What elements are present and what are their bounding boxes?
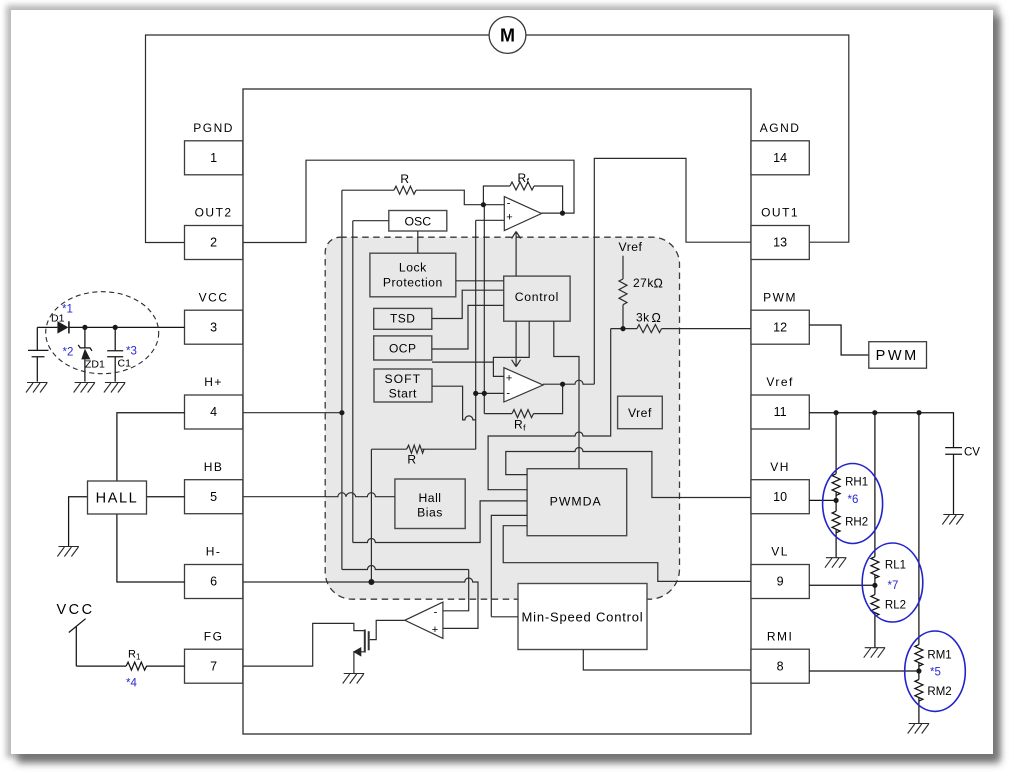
ground MOSFET — [343, 674, 365, 684]
block OCP — [374, 336, 432, 360]
wire comparator output to MOSFET gate — [370, 620, 405, 639]
wire op-amp1 plus input — [476, 219, 504, 221]
svg-text:*6: *6 — [848, 494, 859, 506]
svg-text:PWMDA: PWMDA — [550, 495, 602, 509]
svg-text:Control: Control — [515, 290, 559, 304]
svg-text:Ω: Ω — [654, 277, 664, 291]
zener ZD1 leads — [84, 327, 86, 381]
resistor RM2 — [915, 680, 923, 702]
node VCC/ZD1 — [82, 325, 87, 330]
node VL — [872, 583, 877, 588]
svg-text:Vref: Vref — [619, 240, 643, 254]
svg-text:-: - — [434, 607, 438, 619]
svg-text:RL2: RL2 — [885, 600, 906, 612]
resistor RH1 — [832, 474, 840, 496]
capacitor CV plates — [945, 448, 962, 455]
resistor RM1 — [915, 645, 923, 667]
battery plates — [28, 350, 49, 356]
pin 10 VH — [751, 480, 809, 514]
svg-text:2: 2 — [210, 236, 217, 250]
resistor RH2 — [832, 511, 840, 533]
wire OSC to Lock Protection — [417, 231, 419, 253]
pin 1 PGND — [185, 141, 243, 175]
wire SOFT Start output — [432, 386, 476, 420]
wire 27k lower lead — [622, 305, 624, 329]
resistor R1 — [126, 662, 147, 670]
motor M — [489, 17, 526, 54]
wire VCC rail to pin3 — [37, 326, 184, 328]
pin 13 OUT1 — [751, 226, 809, 260]
vertical op-amp1 plus to op-amp2 minus to R hall — [475, 220, 477, 449]
wire R hall right to minus node — [422, 448, 476, 450]
svg-text:6: 6 — [210, 575, 217, 589]
svg-text:8: 8 — [777, 659, 784, 673]
resistor RL1 — [871, 557, 879, 579]
capacitor C1 plates — [107, 351, 123, 357]
node H+ — [339, 410, 344, 415]
resistor R (top) — [394, 186, 416, 194]
svg-text:PWM: PWM — [876, 348, 919, 364]
svg-text:Bias: Bias — [417, 505, 443, 519]
arrow Control to op-amp1 — [512, 232, 521, 277]
node H- — [368, 579, 374, 585]
pin 7 FG — [185, 649, 243, 683]
wire H+ pin4 internal — [243, 412, 342, 414]
diode D1 — [57, 321, 68, 334]
IC outline U1 — [243, 89, 751, 734]
svg-text:Vref: Vref — [766, 375, 794, 389]
wire OSC route to PWMDA left — [353, 501, 527, 543]
wire R1 left — [76, 665, 126, 667]
node rail RL — [872, 410, 877, 415]
RH chain — [835, 413, 837, 474]
ground symbols — [26, 383, 364, 684]
vertical OUT1 internal — [594, 158, 751, 384]
wire OCP corner to plus node — [432, 361, 493, 363]
svg-text:*7: *7 — [888, 580, 899, 592]
svg-text:-: - — [507, 197, 511, 209]
svg-text:FG: FG — [204, 629, 224, 643]
ground battery — [26, 383, 48, 393]
node 27k/3k — [620, 326, 625, 331]
svg-text:Ω: Ω — [652, 311, 662, 325]
wire H- pin6 internal — [243, 581, 372, 583]
wire OCP to Control — [432, 305, 504, 349]
svg-text:Hall: Hall — [419, 491, 442, 505]
wire VH pin10 to RH node — [809, 499, 836, 501]
block Hall Bias — [395, 479, 465, 529]
PWM external box — [869, 342, 927, 369]
svg-text:*1: *1 — [62, 304, 73, 316]
junction dots — [339, 202, 625, 585]
resistor 27k — [619, 279, 627, 305]
svg-text:RM2: RM2 — [927, 686, 951, 698]
wire op-amp1 output — [542, 212, 563, 214]
ground RL2 — [864, 648, 886, 658]
wire CV lower lead — [953, 455, 955, 515]
resistor Rf top — [510, 182, 534, 190]
wire MOSFET source to ground — [354, 652, 364, 674]
wire VL pin9 to RL node — [809, 584, 875, 586]
pin boxes left — [185, 141, 810, 683]
svg-text:RMI: RMI — [767, 629, 794, 643]
dashed ellipse supply group — [46, 292, 159, 374]
wire op-amp2 minus row — [474, 392, 504, 394]
MOSFET Q1 — [365, 630, 369, 653]
wire comparator minus riser — [443, 570, 469, 611]
internal block texts — [383, 171, 663, 624]
svg-text:12: 12 — [773, 320, 787, 334]
svg-text:10: 10 — [773, 490, 787, 504]
svg-text:HALL: HALL — [96, 491, 139, 507]
svg-text:11: 11 — [774, 405, 787, 419]
pin 11 Vref — [751, 395, 809, 429]
node op-amp1 output — [560, 211, 565, 216]
svg-text:OCP: OCP — [389, 342, 417, 356]
wire PWM pin12 to PWM box — [809, 325, 869, 355]
svg-text:OSC: OSC — [404, 214, 431, 228]
svg-text:+: + — [432, 624, 438, 636]
wire R hall left lead — [371, 448, 406, 450]
wire FG pin7 internal to drain — [243, 623, 364, 666]
pin 6 H- — [185, 565, 243, 599]
svg-text:+: + — [506, 212, 512, 224]
resistor R hall — [407, 445, 424, 453]
wire H- to comparator plus — [371, 578, 478, 628]
wire motor right to OUT1 pin13 — [526, 35, 849, 242]
wire OSC left lead — [353, 220, 389, 222]
ground C1 — [104, 383, 126, 393]
svg-text:1: 1 — [210, 151, 217, 165]
svg-text:VCC: VCC — [199, 290, 229, 304]
svg-text:CV: CV — [964, 447, 980, 459]
resistor RL2 — [871, 595, 879, 617]
wire TSD to Control — [432, 290, 504, 318]
wire Control to PWMDA top — [554, 321, 579, 469]
pin 2 OUT2 — [185, 226, 243, 260]
vertical R hall to H- node — [370, 449, 372, 582]
svg-text:VH: VH — [770, 460, 790, 474]
node VCC/C1 — [113, 325, 118, 330]
blue ellipse RM — [905, 631, 966, 711]
wire RMI pin8 to RM node — [809, 670, 919, 672]
pin 9 VL — [751, 565, 809, 599]
resistor Rf mid — [512, 410, 534, 418]
svg-text:M: M — [500, 26, 515, 46]
wire HB pin5 internal to Hall Bias — [243, 493, 395, 497]
block Min-Speed Control — [518, 584, 647, 650]
svg-text:Protection: Protection — [383, 275, 443, 289]
wire PWMDA to VH (path B) — [506, 448, 751, 498]
svg-text:R: R — [407, 453, 416, 467]
wire comparator minus to H+ vertical — [342, 566, 469, 570]
svg-text:Start: Start — [389, 387, 417, 401]
wire Min-Speed bottom to RMI pin8 — [583, 650, 751, 671]
wire 3k to PWM pin12 internal — [662, 328, 752, 330]
blue ellipse RH — [823, 464, 883, 544]
svg-text:3: 3 — [210, 320, 217, 334]
RL chain — [874, 413, 876, 557]
wire Rf top right to output — [534, 186, 563, 213]
zener ZD1 triangle — [81, 349, 90, 360]
pin 4 H+ — [185, 395, 243, 429]
svg-text:4: 4 — [210, 405, 217, 419]
wire Vref pin11 rail — [809, 413, 953, 448]
svg-text:3k: 3k — [636, 311, 650, 325]
svg-text:AGND: AGND — [760, 121, 801, 135]
wire Rf mid right to output — [533, 384, 562, 413]
svg-text:13: 13 — [773, 236, 787, 250]
labels right external — [845, 447, 980, 699]
wire OUT2 pin2 internal to op-amp1 output — [243, 160, 574, 242]
svg-text:RH1: RH1 — [845, 477, 868, 489]
nodes right rail — [834, 410, 922, 674]
wire PWMDA to VL — [503, 526, 751, 582]
HALL box — [88, 481, 147, 514]
wire battery lead — [36, 327, 38, 381]
svg-text:+: + — [506, 373, 512, 385]
svg-text:Lock: Lock — [399, 261, 427, 275]
node op-amp2 minus b — [482, 391, 487, 396]
pin 5 HB — [185, 480, 243, 514]
MOSFET source arrow — [353, 647, 361, 657]
node rail RH — [834, 410, 839, 415]
svg-text:5: 5 — [210, 490, 217, 504]
resistor 3k — [637, 325, 661, 333]
svg-text:PWM: PWM — [763, 290, 797, 304]
wire Vref 27k upper lead — [622, 256, 624, 279]
node rail RM — [916, 410, 921, 415]
svg-text:*5: *5 — [930, 667, 941, 679]
svg-text:PGND: PGND — [193, 121, 234, 135]
capacitor C1 leads — [114, 327, 116, 381]
wire Rf mid feedback left — [484, 413, 512, 415]
wire R1 to FG pin7 — [147, 665, 185, 667]
node RMI — [916, 668, 921, 673]
svg-text:RH2: RH2 — [845, 517, 868, 529]
ground RH2 — [825, 558, 847, 568]
pin 12 PWM — [751, 310, 809, 344]
svg-text:TSD: TSD — [390, 312, 416, 326]
pin numbers and labels — [210, 151, 787, 673]
svg-text:*2: *2 — [63, 347, 74, 359]
vertical OSC to PWMDA route — [352, 221, 354, 543]
block Vref internal — [618, 396, 663, 429]
wire PWMDA to 27k/3k node (path A) — [488, 329, 611, 490]
block SOFT Start — [374, 369, 432, 402]
svg-text:SOFT: SOFT — [385, 372, 422, 386]
svg-text:H+: H+ — [204, 375, 223, 389]
svg-text:ZD1: ZD1 — [85, 359, 105, 371]
ground CV — [942, 515, 964, 525]
node op-amp1 minus — [481, 202, 486, 207]
block Lock Protection — [370, 253, 456, 297]
wire Lock Protection to Control — [456, 280, 504, 282]
svg-text:VCC: VCC — [57, 602, 95, 618]
arrow Control to op-amp2 — [512, 321, 521, 367]
svg-text:C1: C1 — [118, 358, 132, 370]
wire op-amp2 output to OUT1 vertical — [543, 380, 594, 384]
svg-text:HB: HB — [204, 460, 224, 474]
RM chain — [918, 413, 920, 645]
block TSD — [374, 308, 432, 329]
internal gray dashed region — [325, 237, 679, 599]
svg-text:H-: H- — [206, 545, 222, 559]
svg-text:27k: 27k — [633, 276, 654, 290]
svg-text:RL1: RL1 — [885, 560, 906, 572]
wire Control to op-amp2 plus — [493, 321, 529, 376]
ground ZD1 — [74, 383, 96, 393]
ground HALL — [57, 547, 79, 557]
blue ellipse RL — [862, 543, 923, 622]
svg-text:9: 9 — [777, 575, 784, 589]
wire R top left to vertical — [342, 189, 394, 191]
block Control — [504, 276, 570, 321]
wire 3k node row left — [611, 328, 637, 330]
vertical op-amp1 minus node to Rf mid feedback — [483, 205, 485, 414]
svg-text:*4: *4 — [126, 678, 137, 690]
svg-text:Min-Speed Control: Min-Speed Control — [522, 609, 644, 624]
svg-text:VL: VL — [771, 545, 789, 559]
svg-text:*3: *3 — [126, 346, 137, 358]
svg-text:R: R — [400, 172, 409, 186]
vertical net H+ / R / comparator minus — [341, 190, 343, 569]
wire Min-Speed riser to PWMDA — [491, 515, 527, 616]
ground RM2 — [908, 724, 930, 734]
HALL wires — [147, 496, 185, 498]
block PWMDA — [527, 469, 627, 536]
node op-amp2 minus a — [473, 391, 478, 396]
pin 3 VCC — [185, 310, 243, 344]
node VH — [834, 498, 839, 503]
VCC arrow lead — [69, 619, 86, 666]
wire Min-Speed left stub — [491, 616, 518, 618]
pin 14 AGND — [751, 141, 809, 175]
wire feedback Rf top: minus node up — [483, 186, 510, 205]
block OSC — [389, 211, 447, 232]
wire R top right to op-amp1 minus — [416, 190, 504, 205]
zener ZD1 bar — [78, 345, 92, 351]
op-amp U-mid — [504, 368, 543, 402]
pin 8 RMI — [751, 649, 809, 683]
svg-text:OUT2: OUT2 — [195, 206, 233, 220]
svg-text:Vref: Vref — [628, 406, 652, 420]
svg-text:RM1: RM1 — [927, 650, 951, 662]
svg-text:14: 14 — [773, 151, 787, 165]
svg-text:-: - — [506, 388, 510, 400]
op-amp U-top — [504, 197, 541, 231]
wire motor left to OUT2 pin2 — [146, 35, 490, 243]
svg-text:7: 7 — [210, 659, 217, 673]
svg-text:OUT1: OUT1 — [761, 206, 799, 220]
node op-amp2 output — [560, 382, 565, 387]
comparator (FG) — [405, 602, 443, 638]
